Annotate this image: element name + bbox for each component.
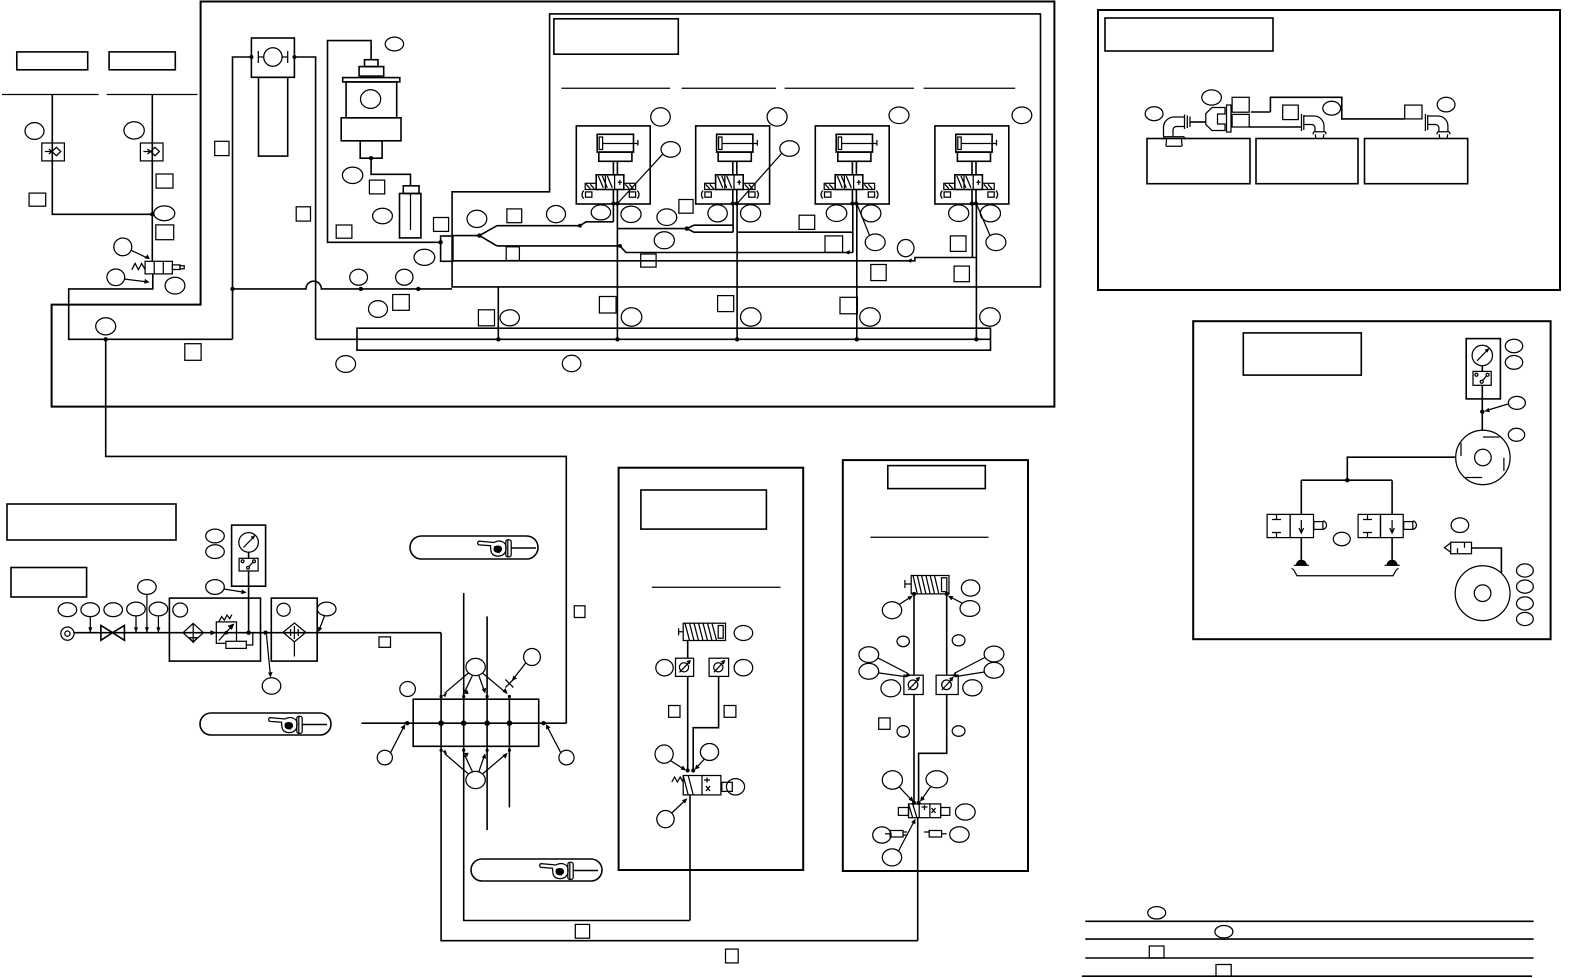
P3 exhaust fittings	[885, 831, 907, 838]
callout balloon 10 (in pump body)	[361, 90, 381, 109]
label box L3	[109, 52, 175, 70]
callout balloon 9	[96, 318, 116, 335]
reference square R15	[950, 236, 966, 252]
callout balloon M3-b	[861, 205, 881, 222]
pump PU1 neck	[360, 141, 382, 158]
module M3 drop wires	[853, 204, 857, 339]
P4 bracket under feet	[1292, 569, 1399, 576]
balloon manifold left with leader	[377, 750, 392, 765]
callout balloon LUB1	[277, 603, 290, 616]
P5 Y-fitting	[1206, 108, 1225, 131]
junction dot gauge line	[246, 631, 250, 635]
callout balloon M2-top	[767, 108, 787, 126]
P3 balloons beside flow controls	[881, 680, 901, 697]
main supply line	[74, 632, 441, 634]
wire panel P1 output to lower circuits	[106, 339, 567, 723]
callout balloon 8	[396, 269, 413, 285]
P5 elbow fitting E1	[1163, 115, 1190, 140]
LUB1 diamond	[283, 623, 306, 642]
P2 underline	[652, 586, 781, 588]
bottom-right wire run W1	[1085, 920, 1533, 922]
callout balloon after lubricator with tick	[317, 602, 336, 616]
P2 spring-return cylinder CYL2	[679, 623, 726, 640]
wire filter right leg to bus	[294, 57, 315, 339]
bottom-right wire run W4	[1082, 975, 1532, 977]
P5 reference square above B3	[1405, 105, 1422, 119]
supply tick arrowheads	[88, 627, 160, 633]
callout balloon M3-a	[826, 205, 847, 222]
callout balloon M2-b	[741, 205, 761, 222]
P5 elbow E1 pipe into box B1	[1166, 139, 1182, 146]
valve module M4	[935, 126, 1009, 206]
P5 callout balloons	[1145, 107, 1163, 121]
valve module M3	[815, 126, 889, 206]
callout balloon bus-2	[621, 308, 642, 326]
LUB1 drain stem	[293, 642, 295, 657]
valve module M2	[696, 126, 770, 206]
reference square R14	[825, 236, 843, 253]
reference square R3	[156, 225, 174, 240]
P3 cylinder port dots	[912, 592, 916, 596]
FR1 regulator body	[211, 614, 253, 648]
callout balloon M3-c	[897, 240, 914, 257]
air source symbol	[61, 627, 74, 640]
leader and balloon M4-valve	[977, 205, 990, 236]
tube tier T1 to module M1	[497, 222, 613, 226]
P4 valve drops to feet	[1301, 538, 1392, 562]
P2 3/2 valve V2 with spring	[672, 776, 733, 795]
filter-regulator unit FR1 box	[169, 598, 260, 661]
P5 reservoir box B1	[1147, 139, 1250, 184]
reference square R12	[641, 254, 656, 267]
callout balloon trunk-lower	[414, 249, 435, 265]
junction dot H1-b	[416, 287, 420, 291]
balloon on W2	[1215, 926, 1233, 938]
P5 reference squares at Y	[1232, 97, 1249, 112]
reference square on W3	[1149, 946, 1164, 958]
leader and balloon M2-valve	[738, 153, 782, 203]
P4 balloons right of gauge	[1505, 339, 1522, 352]
reference square R22	[840, 297, 857, 314]
P2 flow control FC1	[676, 658, 694, 676]
balloon manifold right with leader	[559, 750, 574, 765]
P4 wire rotary to valves	[1301, 457, 1455, 514]
P3 5/2 valve V3	[898, 804, 949, 818]
junction dot H1-a	[359, 287, 363, 291]
reference square R28	[726, 949, 739, 963]
arrowhead T2	[845, 250, 851, 254]
valve module M1 (cylinder + 5/2 solenoid valve)	[576, 126, 650, 206]
wire H1 distribution with hop over pump-loop wire	[233, 281, 453, 289]
P4 junction dot	[1345, 478, 1349, 482]
manifold feed wire from FR line	[441, 633, 918, 941]
reference square R5	[296, 207, 310, 221]
tube trunk lead	[453, 235, 480, 237]
panel P2 enclosure	[619, 468, 804, 870]
callout balloon below-bus-mid	[562, 355, 581, 371]
label box P3 title	[888, 466, 986, 489]
kink dot T1	[578, 224, 582, 228]
callout balloons gauge	[206, 529, 225, 543]
junction dot split	[685, 226, 689, 230]
gauge assembly box	[232, 525, 266, 586]
check valve CV2	[140, 143, 163, 161]
reference square on W4	[1216, 965, 1231, 977]
label underline left pair	[2, 94, 198, 96]
pressure regulator REG1 with relief spring	[132, 261, 184, 274]
P3 small balloons mid	[897, 636, 909, 647]
P5 elbow E1 stub to Y fitting	[1190, 121, 1206, 123]
label underline row above valve modules	[561, 87, 1015, 89]
pressure gauge G1	[239, 533, 259, 553]
tube link M1 to M2 split	[617, 225, 733, 232]
oiler tank T1 body	[400, 194, 421, 238]
air filter F1 element symbol	[258, 48, 287, 66]
reference square R23	[434, 218, 449, 232]
P5 reservoir box B2	[1256, 139, 1358, 184]
P4 gauge assembly box	[1466, 339, 1500, 399]
callout balloon M1-d	[654, 232, 674, 249]
junction dot pump loop to trunk	[438, 240, 442, 244]
wire branch B vertical	[151, 95, 153, 262]
callout balloon bus-0	[369, 301, 388, 318]
tube link M2 to M3	[737, 231, 853, 233]
pointing hand note pill PH2	[200, 713, 331, 735]
manifold center line	[362, 722, 567, 724]
reference square R27	[575, 924, 589, 938]
callout balloon 4 with leader to wire B	[114, 238, 132, 256]
callout balloon M2-a	[708, 205, 727, 222]
panel P1 inner valve-bank enclosure	[452, 14, 1040, 287]
callout balloon 7	[350, 269, 368, 285]
label box L1 (panel P1 title)	[554, 19, 678, 54]
check valve CV1	[42, 143, 65, 161]
label box P2 title	[641, 490, 767, 529]
label box P4 title	[1243, 333, 1361, 375]
P5 reservoir box B3	[1365, 139, 1468, 184]
FR1 filter diamond	[183, 623, 203, 642]
callout balloon row: supply	[58, 603, 77, 617]
pump PU1 base	[341, 118, 401, 141]
P2 flow control FC2	[709, 658, 729, 676]
lubricator unit LUB1 box	[271, 598, 317, 661]
P4 balloon between valves	[1333, 532, 1350, 545]
callout balloon below-bus-left	[336, 356, 356, 373]
arrowhead T3	[907, 258, 913, 262]
callout balloon M1-top	[651, 108, 671, 126]
pointing hand note pill PH1	[410, 536, 538, 559]
pump PU1 top cap stack	[365, 60, 379, 67]
reference square R10	[506, 247, 519, 261]
balloon manifold upper-left	[400, 682, 416, 697]
reference square R17	[954, 266, 969, 282]
junction dot A	[150, 212, 154, 216]
reference square R21	[718, 296, 734, 312]
callout balloon M4-top	[1012, 107, 1032, 124]
tube tier T3 to module M4 (with step)	[453, 258, 977, 261]
callout balloon M4-a	[949, 205, 969, 222]
reference square R7	[369, 180, 384, 194]
P2 valve outlet drop	[689, 795, 691, 921]
wire filter left leg	[233, 57, 252, 339]
reference square R1	[29, 193, 46, 206]
pump PU1 body	[346, 82, 397, 118]
callout balloon 11	[385, 37, 403, 51]
fan balloon bottom with leaders	[466, 771, 485, 788]
P4 3/2 push valve PV2	[1358, 514, 1416, 537]
P4 junction dot with leader balloon	[1480, 410, 1484, 414]
P3 balloons beside valve	[955, 804, 975, 820]
reference square R25	[574, 606, 585, 618]
shut-off valve SV1	[101, 625, 125, 640]
fan balloon top with leaders	[466, 658, 485, 675]
reference square R9	[507, 209, 522, 223]
callout balloon bus-5	[980, 308, 1001, 326]
callout balloon trunk-left	[467, 210, 487, 227]
P3 reference square	[879, 718, 890, 729]
callout balloon 2	[124, 122, 144, 139]
reference square R18	[393, 295, 410, 311]
P4 3/2 push valve PV1	[1267, 514, 1326, 537]
P3 flow control FC4	[936, 675, 958, 694]
balloon plug X with leader	[524, 649, 541, 666]
supply line tick leaders	[90, 594, 158, 633]
P5 wire runs	[1249, 97, 1405, 127]
callout balloon M4-b	[980, 205, 1000, 222]
lubricator pump loop wire	[328, 41, 441, 243]
P3 left stack balloons with leaders	[859, 647, 879, 663]
panel P3 enclosure	[843, 460, 1028, 871]
callout balloon bus-1	[500, 310, 519, 326]
drop line from inner panel to bus	[497, 287, 499, 339]
reference square R13	[799, 215, 815, 229]
P2 valve balloons with leaders	[655, 745, 673, 763]
module M2 drop wires	[733, 204, 737, 339]
module M1 drop wires	[613, 204, 617, 339]
P2 reference squares	[669, 706, 680, 718]
P4 silencer CK1	[1445, 542, 1472, 554]
wire branch A vertical with check valve CV1	[52, 95, 152, 215]
P4 stadium balloons column	[1517, 564, 1534, 577]
P4 air motor AM1	[1455, 566, 1510, 621]
reference square R19	[478, 310, 494, 326]
bottom-right wire run W3	[1085, 957, 1533, 959]
callout balloon 13	[373, 208, 393, 223]
P4 pressure gauge G2	[1472, 345, 1492, 365]
tube trunk junction box	[441, 236, 453, 261]
fan tick dots top	[440, 695, 443, 698]
P3 wires cylinder to flow controls	[914, 594, 947, 804]
air bus mid line	[316, 338, 991, 340]
leader and balloon M1-valve	[618, 154, 663, 203]
P3 small balloons lower	[897, 726, 909, 738]
pointing hand note pill PH3	[471, 859, 602, 881]
oiler tank T1 cap	[403, 186, 419, 194]
callout balloon 5 with leader to regulator	[107, 269, 125, 286]
gauge sensing line	[248, 552, 250, 633]
callout balloon FR1	[173, 603, 188, 617]
P5 elbow fitting E3	[1425, 114, 1450, 139]
reference square R16	[871, 265, 886, 281]
manifold port wire 2	[464, 593, 690, 921]
callout balloon 6	[165, 277, 185, 294]
P3 valve balloons with leaders	[882, 771, 902, 789]
callout balloon M3-top	[889, 107, 909, 124]
P3 right stack balloons with leaders	[984, 646, 1004, 662]
fan tick dots bottom	[440, 749, 443, 752]
P4 balloon above silencer	[1451, 518, 1469, 533]
P4 mushroom feet	[1296, 560, 1307, 565]
label box L4 (air supply title)	[7, 504, 176, 540]
air filter F1 head	[251, 38, 294, 77]
tube bundle flare	[479, 226, 497, 246]
module M4 drop wires	[972, 204, 976, 339]
leader and balloon M3-valve	[857, 205, 869, 235]
panel P5 enclosure (top right)	[1098, 10, 1560, 290]
reference square R11	[679, 200, 693, 214]
reference square R26	[379, 637, 391, 647]
P3 valve top dots	[912, 801, 916, 805]
P4 rotary union RU1	[1456, 430, 1510, 484]
manifold junction dots	[405, 721, 409, 725]
reference square R2	[156, 174, 173, 188]
panel P4 enclosure (bottom right)	[1193, 321, 1550, 639]
oiler tank T1 dip tube	[410, 194, 412, 231]
balloon on W1	[1148, 907, 1166, 919]
reference square R4	[215, 141, 229, 155]
callout balloon with leader to gauge line	[206, 580, 225, 595]
P3 balloons top	[961, 580, 979, 596]
junction dot pump outlet	[369, 156, 373, 160]
callout balloon trunk-mid	[547, 206, 566, 223]
callout balloon M1-a	[591, 205, 610, 220]
P4 wire silencer to motor	[1472, 548, 1502, 573]
P5 elbow fitting E2	[1302, 114, 1327, 139]
junction dot manifold feed	[104, 337, 108, 341]
P2 junction dots	[686, 769, 690, 773]
callout balloon 3	[154, 206, 175, 221]
label box L2 (top far left)	[17, 52, 88, 70]
air filter F1 bowl	[259, 77, 288, 156]
pump PU1 flange	[343, 78, 400, 82]
distribution manifold block	[413, 699, 539, 746]
P4 gauge line down to rotary union	[1481, 366, 1483, 431]
manifold port wire 3	[486, 616, 488, 830]
P3 spring-return cylinder CYL3	[905, 576, 949, 594]
wire from regulator to main loop	[69, 274, 233, 339]
junction dot trunk tip	[477, 233, 481, 237]
bottom-right wire run W2	[1085, 938, 1533, 940]
P2 balloons	[734, 626, 753, 641]
P2 wires cylinder to valve	[688, 641, 719, 772]
P4 pressure switch PS2	[1473, 371, 1491, 385]
P3 valve outlet drop	[917, 818, 919, 941]
panel P1 air-control-unit enclosure	[52, 2, 1055, 407]
manifold port wire 4 with plug X	[508, 696, 510, 808]
reference square R24	[185, 344, 201, 361]
FR1 drain triangle	[189, 638, 197, 643]
tube tier T2 to module M3	[497, 246, 853, 253]
P3 flow control FC3	[904, 675, 923, 694]
P3 underline	[870, 536, 988, 538]
pressure switch PS1	[239, 558, 258, 571]
callout balloon 1	[25, 123, 44, 140]
reference square R6	[336, 225, 352, 238]
reference square R20	[599, 297, 616, 314]
filter F1 inlet/outlet dots	[249, 55, 253, 59]
P5 reference square above B2	[1283, 105, 1299, 120]
P4 balloon right of rotary	[1508, 428, 1524, 441]
junction dots on bus	[496, 337, 500, 341]
callout balloon M1-b	[621, 206, 641, 222]
callout balloon M1-c	[657, 209, 677, 226]
callout balloon 12	[342, 167, 362, 183]
wire pump outlet to oiler tank	[371, 158, 410, 186]
junction dot H1-left	[230, 287, 234, 291]
callout balloon bus-3	[741, 308, 762, 326]
air bus bar	[357, 328, 991, 350]
junction dot FR out with leader balloon below	[263, 631, 267, 635]
label box L5	[11, 568, 87, 598]
label box P5 title	[1105, 18, 1273, 51]
callout balloon bus-4	[860, 308, 881, 326]
